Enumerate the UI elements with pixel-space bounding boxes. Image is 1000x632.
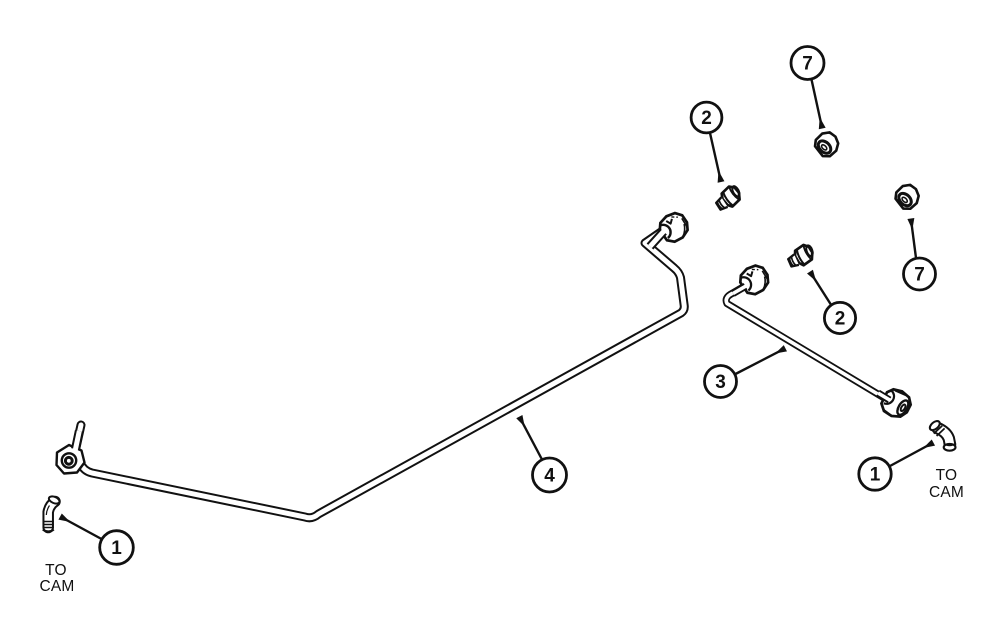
callout circle 2 upper [691, 102, 722, 133]
svg-text:1: 1 [111, 538, 122, 559]
nut 7 right (small hex nut) [892, 181, 923, 212]
callout circle 7 right [904, 258, 936, 290]
svg-text:7: 7 [914, 265, 925, 286]
nut on tube 3 top end (angled hex cap nut) [733, 261, 773, 298]
arrow to nut 7 right [911, 220, 916, 259]
arrow to nut 7 upper [812, 80, 823, 128]
arrow to fitting 2 upper [710, 133, 721, 181]
callout circle 1 right [859, 458, 891, 490]
callout circle 1 left [100, 531, 134, 565]
label TO CAM right [929, 467, 964, 501]
tube 4 (long tube) [80, 229, 684, 518]
arrow to elbow 1 right [890, 443, 933, 466]
fitting 2 upper (hex fitting with threaded stub) [712, 183, 744, 214]
arrow to tube 4 [520, 418, 542, 460]
elbow fitting 1 right [928, 419, 956, 450]
svg-text:1: 1 [870, 465, 881, 486]
nut on tube 4 top end (angled hex cap nut) [650, 209, 692, 247]
callout circle 4 [533, 458, 567, 492]
svg-text:3: 3 [715, 372, 726, 393]
elbow fitting 1 left [43, 495, 61, 531]
arrow to fitting 2 lower [811, 273, 832, 306]
callout circle 7 top [791, 47, 824, 80]
nut on tube 4 left end (face-on hex nut) [57, 431, 85, 474]
callout circle 3 [705, 366, 737, 398]
label TO CAM left [39, 562, 74, 595]
svg-text:TO: TO [936, 467, 958, 484]
fitting 2 lower (hex fitting with threaded stub) [785, 242, 817, 270]
arrow to elbow 1 left [61, 517, 102, 539]
svg-text:7: 7 [802, 54, 813, 75]
svg-text:CAM: CAM [929, 484, 964, 501]
tube 3 (short tube) [726, 283, 886, 399]
svg-text:4: 4 [544, 466, 555, 487]
nut 7 upper (small hex nut) [812, 128, 843, 159]
tube 4 stub above left nut [75, 425, 81, 452]
svg-text:2: 2 [701, 108, 712, 129]
nut on tube 3 bottom end (angled hex nut with bore) [878, 385, 915, 422]
callout circle 2 lower [824, 302, 855, 333]
svg-text:TO: TO [45, 562, 67, 579]
arrow to tube 3 [736, 349, 785, 374]
svg-text:2: 2 [835, 309, 846, 330]
svg-text:CAM: CAM [39, 578, 74, 595]
